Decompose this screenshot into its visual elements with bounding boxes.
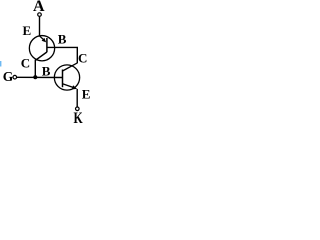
svg-text:C: C [21, 55, 30, 70]
svg-text:A: A [33, 0, 45, 15]
svg-text:C: C [78, 50, 87, 65]
svg-text:E: E [23, 23, 32, 38]
svg-text:E: E [82, 86, 91, 101]
svg-text:K: K [74, 110, 84, 127]
svg-text:B: B [42, 64, 51, 79]
svg-text:B: B [58, 32, 67, 47]
svg-text:G: G [3, 69, 14, 84]
